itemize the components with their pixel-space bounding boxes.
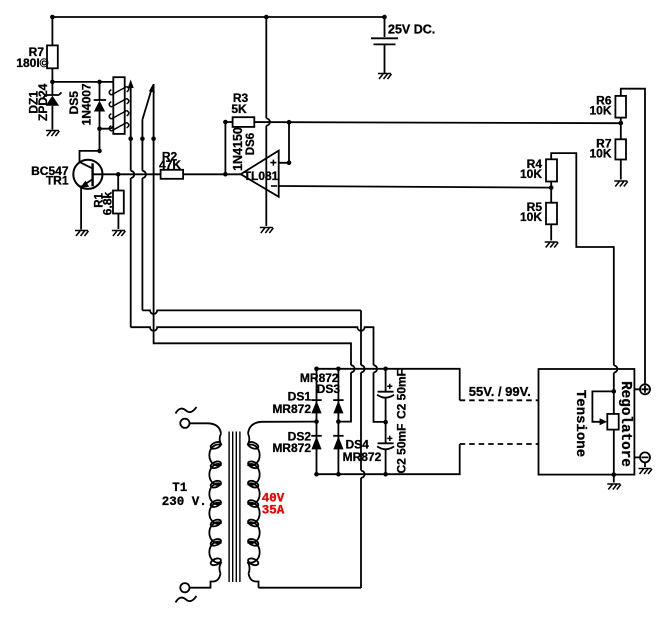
ground R5 <box>545 242 559 248</box>
ground R1 <box>112 231 126 237</box>
relay coil K1 <box>109 77 129 134</box>
resistor R5 (10K) <box>546 203 557 225</box>
op-amp U1 TL081 negative supply wire <box>266 17 270 226</box>
resistor R7 right (10K) <box>615 139 626 159</box>
svg-text:55V. / 99V.: 55V. / 99V. <box>469 384 531 399</box>
relay contact arrow 1 <box>128 80 134 89</box>
node top-mid junction <box>264 15 269 20</box>
wire bridge positive rail <box>317 369 460 401</box>
diode DS5 1N4007 <box>94 82 106 129</box>
transformer T1 primary terminal bottom <box>176 583 197 602</box>
wire secondary bottom to contact net <box>259 587 362 589</box>
diode DS3 MR872 <box>333 400 343 413</box>
resistor R2 (47K) <box>161 170 184 179</box>
wire R1 top lead <box>117 174 119 190</box>
ground op-amp supply <box>260 228 274 234</box>
wire contact line 3 (net to bridge midpoint) <box>154 84 355 422</box>
wire +input riser <box>279 122 289 163</box>
svg-text:10K: 10K <box>589 147 611 161</box>
svg-text:10K: 10K <box>520 210 542 224</box>
ground negative terminal <box>639 469 653 475</box>
node R6R7 junction <box>619 121 624 126</box>
resistor R6 (10K) <box>615 96 626 118</box>
op-amp U1 TL081 <box>241 151 279 197</box>
svg-text:MR872: MR872 <box>272 402 311 416</box>
node collector corner junction <box>97 149 102 154</box>
node regulator input junction <box>612 389 617 394</box>
wire R1 bottom lead <box>117 214 119 230</box>
wire contact line 1 (net to cap midpoint) <box>131 86 135 327</box>
svg-text:47K: 47K <box>159 158 181 172</box>
svg-text:1N4007: 1N4007 <box>80 83 94 125</box>
node battery junction <box>382 15 387 20</box>
node A junction DS5 <box>97 80 102 85</box>
resistor R1 (6.8k) <box>113 191 124 214</box>
relay contact arrow 2 <box>149 84 155 93</box>
wire R4 top to regulator pot <box>551 153 617 391</box>
ground battery <box>378 74 392 80</box>
wire R7 top lead <box>51 17 53 45</box>
svg-text:35A: 35A <box>262 503 285 517</box>
node bridge rail junctions <box>314 367 388 477</box>
svg-text:DS6: DS6 <box>245 133 257 155</box>
wire R7 right bottom lead <box>620 160 622 180</box>
diode DS6 1N4150 feedback branch <box>224 122 226 174</box>
wire DS5 to relay coil bottom <box>100 127 114 129</box>
op-amp minus sign <box>271 185 277 187</box>
wire -input to R4R5 divider <box>279 186 552 188</box>
svg-text:25V DC.: 25V DC. <box>388 23 435 37</box>
diode DS1 MR872 <box>311 400 321 413</box>
svg-text:6,8k: 6,8k <box>101 191 115 215</box>
ground TR1 emitter <box>75 231 89 237</box>
svg-text:DS3: DS3 <box>317 382 341 396</box>
node +input corner <box>287 161 292 166</box>
terminal negative output <box>634 452 650 467</box>
wire R7 bottom lead <box>51 68 53 82</box>
ground R7 right <box>614 181 628 187</box>
wire R6 R7 junction <box>620 118 622 140</box>
ground DZ1 <box>46 131 60 137</box>
resistor R7 (180 ohm) <box>47 45 58 68</box>
svg-text:10K: 10K <box>589 104 611 118</box>
wire contact line 2 (net to transformer bottom) <box>142 120 146 311</box>
potentiometer wiper arrow <box>600 418 608 425</box>
potentiometer wiper wire <box>592 391 613 421</box>
node DS5 anode junction <box>97 126 102 131</box>
svg-text:ZPD24: ZPD24 <box>36 83 50 121</box>
wire node A horizontal <box>52 81 112 83</box>
transformer T1 primary terminal top <box>176 407 197 428</box>
svg-text:Tensione: Tensione <box>572 390 588 457</box>
wire dashed 99V feed <box>460 443 539 445</box>
potentiometer body <box>607 391 618 474</box>
wire bridge negative rail <box>317 444 460 474</box>
node contact 1 terminal <box>128 136 133 141</box>
svg-text:T1: T1 <box>172 481 187 495</box>
terminal positive output <box>634 384 650 394</box>
transformer T1 primary winding <box>190 423 222 587</box>
resistor R4 (10K) <box>546 159 557 181</box>
svg-text:TL081: TL081 <box>244 169 279 183</box>
node contact 2 terminal <box>140 136 145 141</box>
wire R5 bottom lead <box>550 224 552 240</box>
transformer T1 secondary winding <box>247 422 262 588</box>
svg-text:5K: 5K <box>231 102 247 116</box>
node DS6 top junction <box>223 120 228 125</box>
node R4R5 junction <box>549 185 554 190</box>
svg-text:MR872: MR872 <box>343 450 382 464</box>
wire TR1 emitter <box>80 186 82 230</box>
svg-text:180I©: 180I© <box>16 56 48 70</box>
svg-text:TR1: TR1 <box>46 174 69 188</box>
battery 25V DC <box>371 17 398 73</box>
node A junction left <box>50 80 55 85</box>
svg-text:10K: 10K <box>520 167 542 181</box>
ground regulator <box>607 484 621 490</box>
wire feedback to R6R7 divider (+input net) <box>225 122 620 123</box>
wire R6 top to regulator + <box>621 89 645 385</box>
svg-text:C2 50mF: C2 50mF <box>395 423 409 473</box>
resistor R3 (5K) <box>233 117 255 127</box>
node +input riser junction <box>287 120 292 125</box>
node base R1 junction <box>116 172 121 177</box>
wire top rail +25V net <box>52 16 384 18</box>
svg-text:C2 50mF: C2 50mF <box>395 369 409 419</box>
wire R2 to op-amp output <box>183 173 241 175</box>
wire regulator ground lead <box>613 475 615 483</box>
svg-text:230 V.: 230 V. <box>162 495 207 509</box>
wire bridge right leg <box>337 369 339 474</box>
zener diode DZ1 ZPD24 <box>43 82 61 130</box>
wire dashed 55V feed <box>460 399 539 401</box>
wire TR1 collector <box>80 129 100 169</box>
diode DS2 MR872 <box>311 436 321 450</box>
node top-left junction <box>50 15 55 20</box>
svg-text:1N4150: 1N4150 <box>231 127 245 171</box>
wire TR1 base <box>93 173 161 175</box>
capacitor C2 bottom 50mF <box>377 422 394 474</box>
transistor TR1 BC547 <box>73 160 102 189</box>
relay moving contact arm <box>142 88 152 120</box>
op-amp plus sign <box>270 160 276 166</box>
wire bridge left leg <box>316 369 318 474</box>
svg-text:MR872: MR872 <box>272 441 311 455</box>
capacitor C2 top 50mF <box>377 369 394 422</box>
wire R4 R5 junction <box>550 182 552 203</box>
transformer T1 core <box>229 432 240 583</box>
diode DS4 MR872 <box>333 436 343 450</box>
regulator block Regolatore Tensione <box>539 369 635 475</box>
node op-amp output junction <box>223 172 228 177</box>
node regulator bottom junction <box>612 472 617 477</box>
node contact 3 terminal <box>151 136 156 141</box>
wire secondary top to bridge <box>262 421 317 423</box>
